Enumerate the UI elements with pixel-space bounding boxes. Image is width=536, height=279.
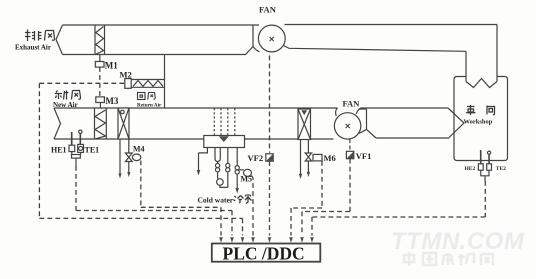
svg-text:TTMN.COM: TTMN.COM bbox=[391, 228, 525, 255]
svg-text:M6: M6 bbox=[324, 153, 336, 163]
watermark 中国纺机网 bbox=[404, 252, 493, 266]
svg-text:VF2: VF2 bbox=[248, 153, 264, 163]
label 新风 New Air bbox=[55, 91, 81, 100]
fan FAN2 bbox=[334, 108, 376, 139]
heater coil box bbox=[118, 108, 129, 139]
exhaust duct bbox=[56, 25, 497, 82]
cooling coil tubes bbox=[214, 108, 235, 136]
return air damper bbox=[131, 80, 164, 88]
cold water pipe with valve M5 bbox=[235, 148, 252, 194]
workshop sensor junction bbox=[481, 170, 489, 181]
svg-text:TE2: TE2 bbox=[496, 166, 506, 172]
wire HE2/TE2 to PLC bbox=[312, 181, 485, 236]
wire M4 to PLC bbox=[141, 161, 221, 236]
sensor HE2 bbox=[465, 150, 484, 172]
svg-text:Workshop: Workshop bbox=[464, 119, 493, 126]
svg-text:New Air: New Air bbox=[53, 101, 78, 109]
valve M4 group bbox=[118, 139, 144, 179]
svg-text:PLC /DDC: PLC /DDC bbox=[223, 244, 305, 264]
PLC/DDC controller box bbox=[212, 244, 320, 264]
wire VF1 to PLC bbox=[302, 159, 350, 236]
label 车间 Workshop bbox=[466, 105, 495, 115]
sensor HE1 bbox=[51, 132, 75, 155]
wire M6 to PLC bbox=[291, 161, 322, 236]
svg-text:Exhaust Air: Exhaust Air bbox=[15, 44, 51, 52]
cold water pipe 2 bbox=[226, 148, 230, 188]
new air damper (M3 damper) bbox=[95, 108, 107, 139]
svg-text:HE1: HE1 bbox=[51, 146, 67, 155]
condensate drain bbox=[197, 148, 208, 176]
sensor junction bbox=[72, 152, 81, 166]
actuator M1 bbox=[95, 55, 118, 71]
fan FAN1 bbox=[258, 25, 285, 52]
cooling coil header pan bbox=[204, 136, 245, 148]
supply duct bbox=[54, 108, 464, 139]
wire HE1/TE1 to PLC bbox=[76, 166, 232, 236]
exhaust damper (M1 damper) bbox=[95, 25, 105, 55]
svg-text:FAN: FAN bbox=[259, 5, 277, 15]
wire VF2 to PLC bbox=[269, 161, 271, 235]
actuator M2 bbox=[120, 70, 132, 89]
svg-text:M1: M1 bbox=[105, 61, 118, 71]
wire M5 to PLC bbox=[252, 176, 254, 236]
dashed control wire M1-M3 bbox=[99, 67, 101, 97]
svg-text:M5: M5 bbox=[241, 175, 253, 184]
sensor TE1 bbox=[78, 130, 99, 154]
svg-text:M3: M3 bbox=[105, 96, 118, 106]
svg-text:TE1: TE1 bbox=[85, 146, 100, 155]
valve M6 group bbox=[305, 140, 336, 178]
svg-text:VF1: VF1 bbox=[356, 151, 372, 161]
svg-text:Cold water: Cold water bbox=[198, 196, 234, 205]
inverter VF2 bbox=[248, 153, 274, 163]
svg-text:M4: M4 bbox=[133, 145, 145, 154]
circulation U-tube and pump bbox=[215, 148, 228, 188]
label 回风 Return Air bbox=[138, 93, 156, 100]
wire FAN2 to VF1 bbox=[349, 139, 351, 151]
sensor TE2 bbox=[487, 151, 506, 172]
svg-text:HE2: HE2 bbox=[465, 166, 476, 172]
actuator M3 bbox=[96, 96, 119, 108]
watermark TTMN.COM bbox=[391, 228, 525, 255]
duct break zigzag into workshop bbox=[466, 79, 497, 88]
filter box bbox=[298, 109, 311, 140]
svg-text:FAN: FAN bbox=[343, 99, 361, 109]
filter drain bbox=[299, 140, 302, 180]
inverter VF1 bbox=[346, 151, 371, 161]
dashed wire left loop (M1/M2/M3 group) bbox=[39, 83, 242, 235]
mixing box left wall bbox=[164, 55, 166, 109]
workshop box bbox=[454, 77, 508, 161]
wire FAN1 to VF2 bbox=[269, 56, 271, 153]
PLC input arrowheads bbox=[219, 237, 314, 243]
label 排风 Exhaust Air bbox=[25, 30, 55, 42]
svg-text:M2: M2 bbox=[120, 70, 132, 80]
